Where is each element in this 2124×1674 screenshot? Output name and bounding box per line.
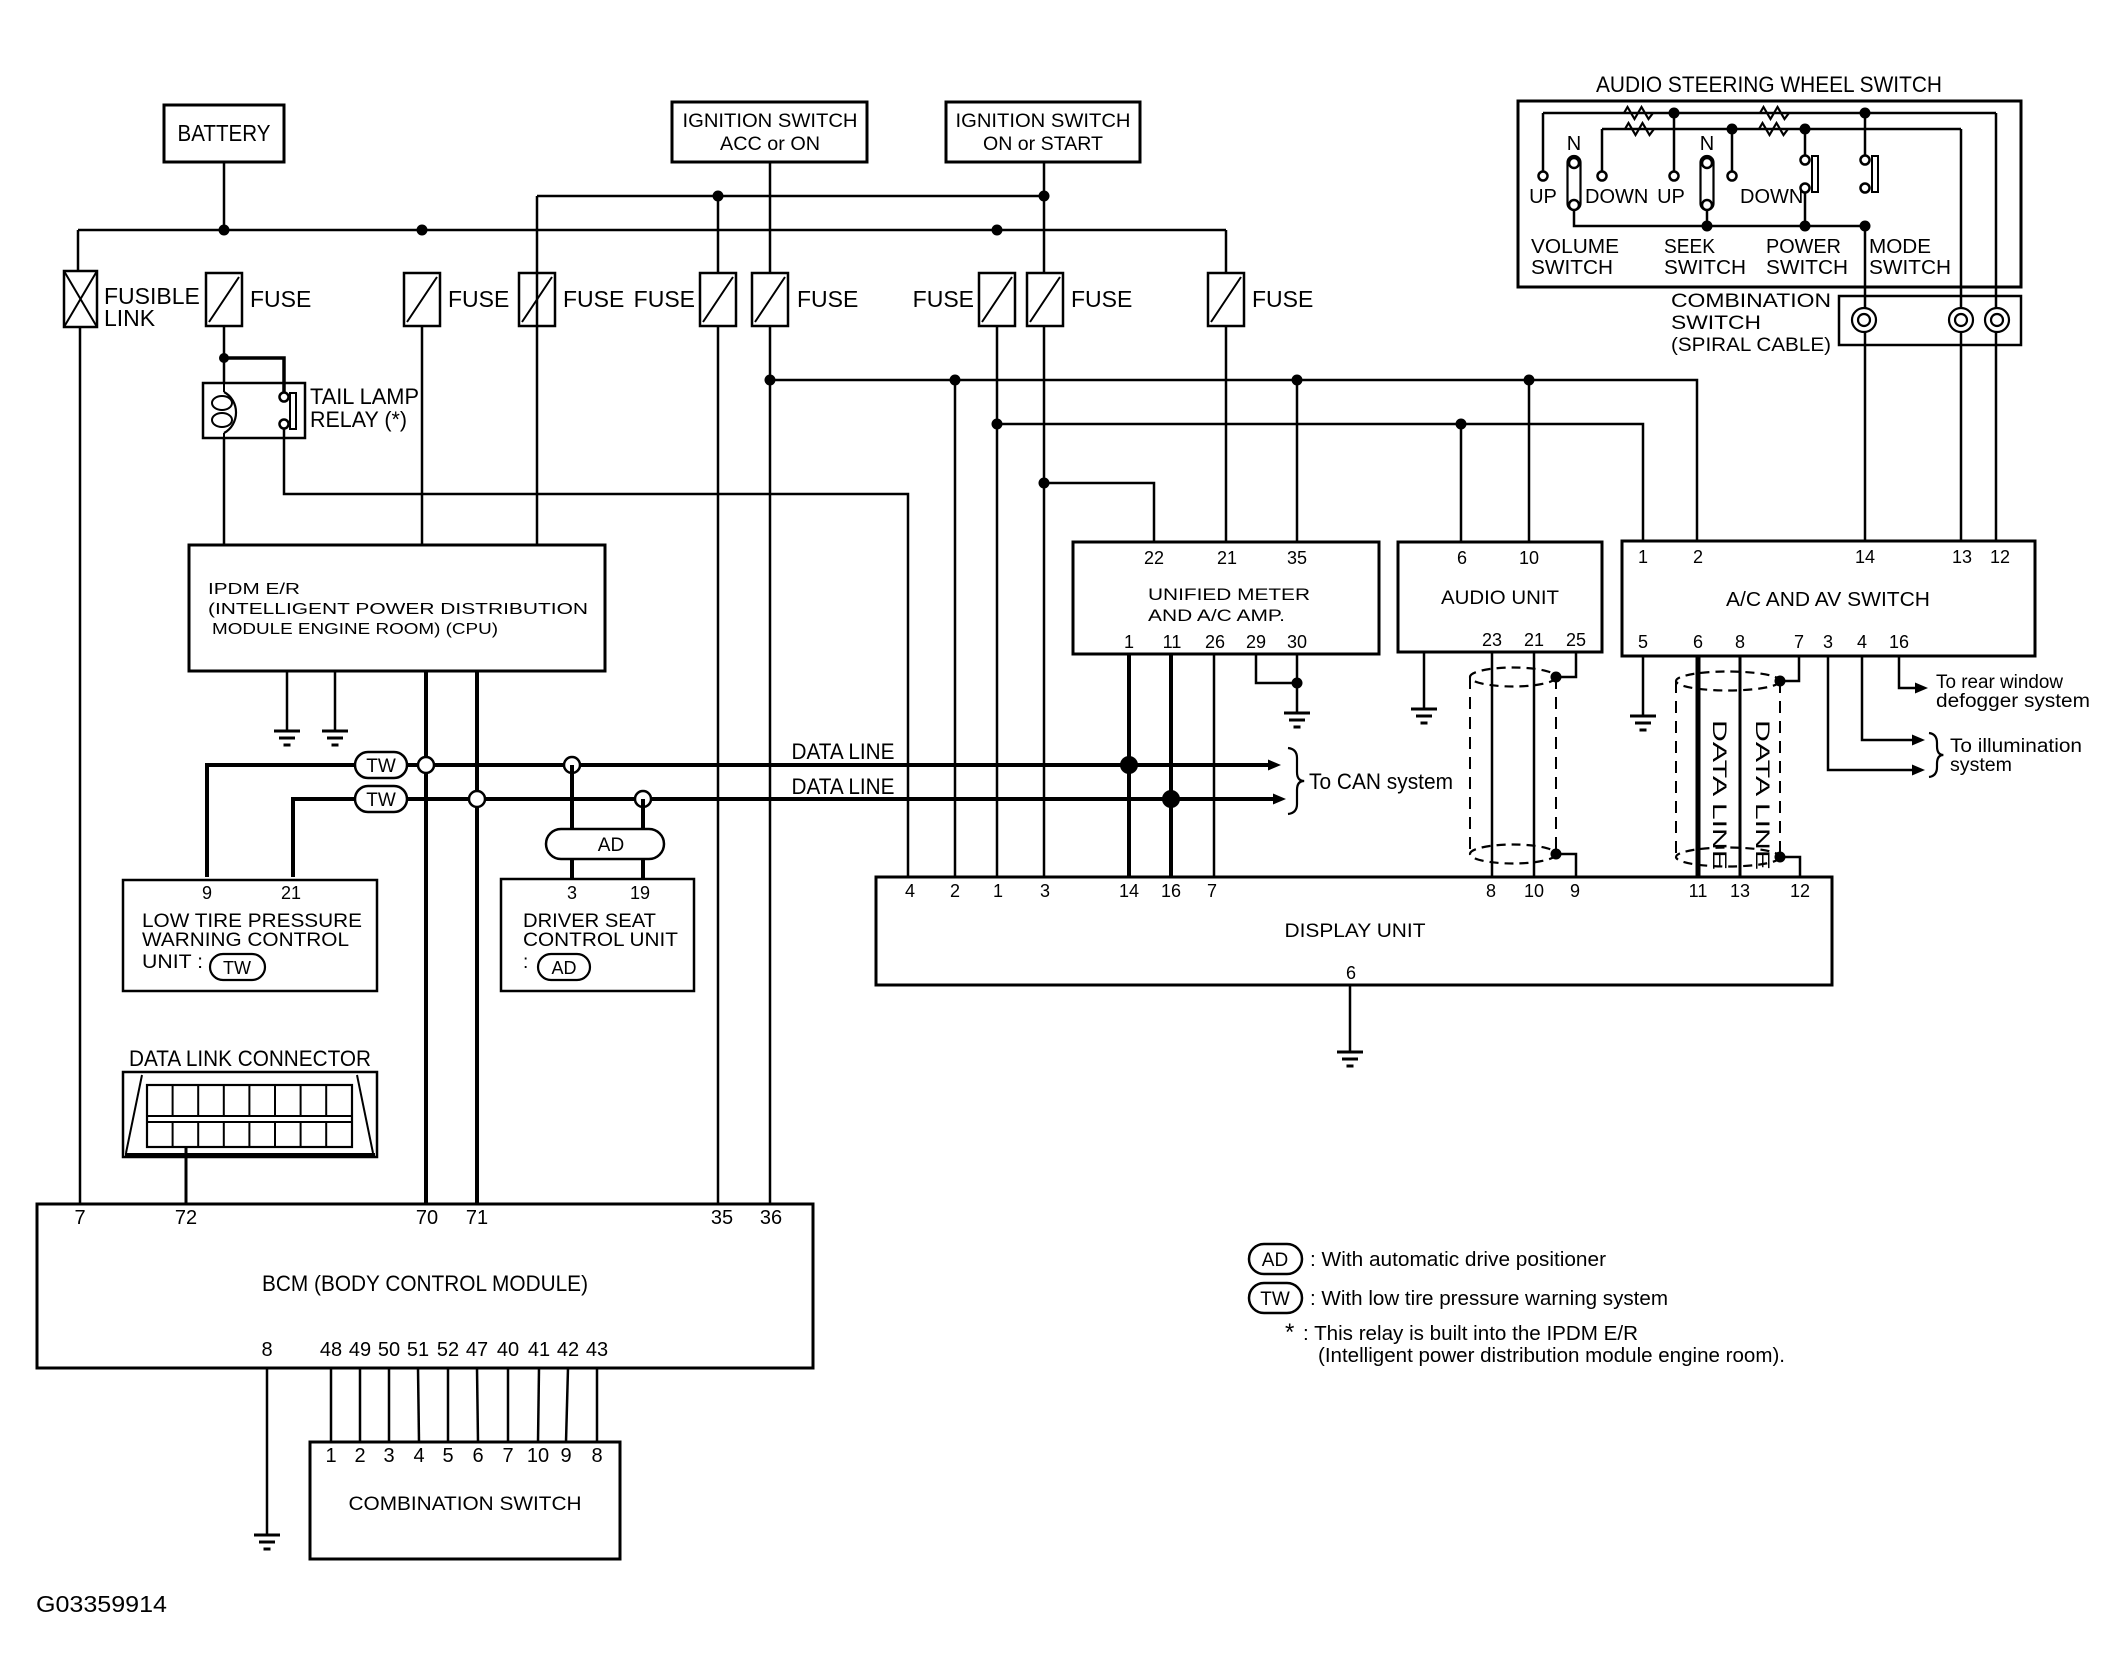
svg-text:2: 2 — [354, 1445, 365, 1467]
svg-text:COMBINATION SWITCH: COMBINATION SWITCH — [349, 1494, 582, 1515]
svg-text::: : — [523, 952, 528, 973]
ground BCM — [254, 1534, 280, 1537]
arrow illumination 1 — [1912, 735, 1925, 746]
svg-text:LOW TIRE PRESSURE: LOW TIRE PRESSURE — [142, 911, 362, 932]
wire line B output to A/C pin 13 — [1960, 129, 1963, 541]
wire IPDM ground 1 — [286, 671, 289, 731]
svg-text:FUSE: FUSE — [250, 286, 311, 312]
svg-text:UP: UP — [1657, 186, 1685, 208]
fuse F8 — [1208, 273, 1244, 326]
svg-text:13: 13 — [1730, 881, 1750, 901]
wire driver seat pin 19 drop — [641, 799, 645, 879]
arrow CAN-L to CAN system — [1273, 794, 1286, 805]
wire switch bottom bus line C — [1574, 210, 1865, 226]
svg-text:16: 16 — [1161, 881, 1181, 901]
svg-text:3: 3 — [567, 883, 577, 903]
shield cylinder audio — [1470, 668, 1556, 687]
fuse F2 — [404, 273, 440, 326]
svg-text:48: 48 — [320, 1339, 342, 1361]
svg-text:SWITCH: SWITCH — [1531, 257, 1613, 279]
wire battery feed line y424 — [997, 424, 1643, 541]
svg-text:SEEK: SEEK — [1664, 236, 1716, 258]
svg-text:21: 21 — [1524, 630, 1544, 650]
svg-text:ACC or ON: ACC or ON — [720, 133, 820, 155]
wire A/C pin 16 to rear defogger — [1899, 656, 1915, 688]
wire A/C pin 6 data line to display 11 — [1696, 656, 1701, 877]
svg-text:DATA LINE: DATA LINE — [792, 774, 895, 799]
svg-text:36: 36 — [760, 1207, 782, 1229]
svg-text:71: 71 — [466, 1207, 488, 1229]
arrow CAN-H to CAN system — [1268, 760, 1281, 771]
wire A/C pin 4 to illumination — [1862, 656, 1912, 740]
wires BCM to combination switch — [330, 1368, 333, 1442]
svg-text:VOLUME: VOLUME — [1531, 236, 1619, 258]
node CAN junction seat-3 — [564, 757, 580, 773]
wire driver seat pin 3 drop — [570, 765, 574, 879]
svg-text:11: 11 — [1163, 632, 1182, 652]
wire fuse F3 to IPDM — [536, 273, 539, 545]
svg-text:IGNITION SWITCH: IGNITION SWITCH — [683, 110, 858, 132]
wire audio pin 23 to display 8 — [1491, 652, 1494, 877]
ground audio unit — [1411, 708, 1437, 711]
svg-text:43: 43 — [586, 1339, 608, 1361]
svg-text:51: 51 — [407, 1339, 429, 1361]
resistor R1 on line A — [1624, 107, 1653, 119]
wire DLC pin to BCM pin 72 — [185, 1147, 188, 1204]
wire volume down contact — [1601, 129, 1604, 171]
wire BCM pin 8 ground — [266, 1368, 269, 1535]
wire line A output to A/C pin 12 — [1995, 113, 1998, 541]
svg-text:DOWN: DOWN — [1740, 186, 1803, 208]
wire unified meter pin 35 drop — [1296, 380, 1299, 542]
node fuse F6 branch y424 — [992, 419, 1003, 430]
svg-text:CONTROL UNIT: CONTROL UNIT — [523, 930, 678, 951]
svg-text:TW: TW — [366, 790, 396, 811]
svg-text:72: 72 — [175, 1207, 197, 1229]
spiral cable contact 2 — [1949, 308, 1973, 332]
svg-text:9: 9 — [1570, 881, 1580, 901]
wire seek up contact — [1673, 113, 1676, 171]
IPDM E/R box — [189, 545, 605, 671]
wire ignition START down to fuse F7 — [1043, 162, 1046, 273]
svg-text:TW: TW — [1260, 1289, 1290, 1310]
node audio shield bottom — [1551, 849, 1562, 860]
wire data line 1 (CAN-H) — [207, 765, 1268, 877]
legend AD symbol — [1249, 1244, 1302, 1274]
svg-text:UNIT :: UNIT : — [142, 952, 203, 973]
svg-text:1: 1 — [1124, 632, 1134, 652]
combination switch box — [310, 1442, 620, 1559]
svg-text:12: 12 — [1790, 881, 1810, 901]
svg-text:(SPIRAL CABLE): (SPIRAL CABLE) — [1671, 335, 1831, 356]
ground A/C AV switch — [1630, 715, 1656, 718]
wire bus corner to fuse F8 — [1225, 230, 1228, 273]
wire battery bus — [78, 229, 1226, 232]
node CAN junction meter-1 / display-14 — [1120, 756, 1138, 774]
combination switch spiral cable box — [1839, 296, 2021, 345]
svg-text:70: 70 — [416, 1207, 438, 1229]
svg-text:4: 4 — [413, 1445, 424, 1467]
svg-text:16: 16 — [1889, 632, 1909, 652]
svg-text:AD: AD — [551, 958, 576, 978]
svg-text:11: 11 — [1689, 881, 1708, 901]
svg-text:DOWN: DOWN — [1585, 186, 1648, 208]
wire power top contact — [1804, 129, 1807, 155]
node line B seek tap — [1727, 124, 1738, 135]
node meter ground junction — [1292, 678, 1303, 689]
wire data line 2 (CAN-L) — [293, 799, 1273, 877]
svg-text:FUSE: FUSE — [797, 286, 858, 312]
wire A/C pin 7 shield tap — [1785, 656, 1799, 681]
node bus seek — [1702, 221, 1713, 232]
contact power bottom — [1801, 184, 1810, 193]
svg-text:22: 22 — [1144, 548, 1164, 568]
svg-text:AND A/C AMP.: AND A/C AMP. — [1148, 606, 1285, 625]
svg-text:AUDIO UNIT: AUDIO UNIT — [1441, 588, 1559, 609]
wire ign-start branch line y196 — [537, 195, 1045, 198]
svg-text:LINK: LINK — [104, 305, 156, 331]
svg-text:29: 29 — [1246, 632, 1266, 652]
svg-text:To rear window: To rear window — [1936, 672, 2063, 693]
svg-text:52: 52 — [437, 1339, 459, 1361]
svg-text:4: 4 — [1857, 632, 1867, 652]
wire A/C pin 3 to illumination — [1828, 656, 1912, 770]
tail lamp relay K1 box — [203, 383, 305, 438]
svg-text:: This relay is built into the: : This relay is built into the IPDM E/R — [1303, 1323, 1638, 1345]
svg-text:BATTERY: BATTERY — [178, 120, 271, 146]
node audio shield top — [1551, 672, 1562, 683]
wire IPDM CAN-H to BCM pin 70 — [424, 671, 428, 1204]
svg-text:10: 10 — [527, 1445, 549, 1467]
svg-text:13: 13 — [1952, 547, 1972, 567]
svg-text:BCM (BODY CONTROL MODULE): BCM (BODY CONTROL MODULE) — [262, 1271, 588, 1296]
ground IPDM 2 — [322, 730, 348, 733]
display unit box — [876, 877, 1832, 985]
audio steering wheel switch box — [1518, 101, 2021, 287]
svg-text:19: 19 — [630, 883, 650, 903]
svg-text:FUSE: FUSE — [448, 286, 509, 312]
svg-text:N: N — [1700, 133, 1714, 155]
svg-text:To illumination: To illumination — [1950, 736, 2082, 757]
wire audio unit pin 10 drop — [1528, 380, 1531, 542]
svg-text:41: 41 — [528, 1339, 550, 1361]
svg-text:*: * — [1285, 1319, 1294, 1346]
node unified meter pin35 tap — [1292, 375, 1303, 386]
svg-text:7: 7 — [502, 1445, 513, 1467]
svg-text:7: 7 — [1794, 632, 1804, 652]
svg-text:TW: TW — [366, 756, 396, 777]
svg-text:3: 3 — [1040, 881, 1050, 901]
ground display unit — [1337, 1051, 1363, 1054]
svg-text:5: 5 — [1638, 632, 1648, 652]
node fuse F4 tap — [713, 191, 724, 202]
svg-text:35: 35 — [711, 1207, 733, 1229]
svg-text:7: 7 — [1207, 881, 1217, 901]
wire relay coil to IPDM — [223, 438, 226, 545]
wire audio shield to display 9 — [1556, 854, 1576, 877]
svg-text:system: system — [1950, 755, 2012, 776]
svg-text:IPDM E/R: IPDM E/R — [208, 581, 300, 598]
fuse F3 — [519, 273, 555, 326]
wire mode top contact — [1864, 113, 1867, 155]
wire audio pin 25 shield tap — [1561, 652, 1576, 677]
node CAN junction meter-11 / display-16 — [1162, 790, 1180, 808]
spiral cable contact 1 — [1852, 308, 1876, 332]
legend TW symbol — [1249, 1283, 1302, 1313]
svg-text:8: 8 — [1486, 881, 1496, 901]
ignition switch ON/START box — [946, 102, 1140, 162]
connector TW on data line 1 — [355, 752, 407, 778]
svg-text:50: 50 — [378, 1339, 400, 1361]
svg-text:10: 10 — [1519, 548, 1539, 568]
svg-text:: With automatic drive positio: : With automatic drive positioner — [1310, 1249, 1606, 1271]
ground unified meter — [1284, 712, 1310, 715]
seek N switch — [1701, 156, 1714, 210]
node battery-bus junction — [219, 225, 230, 236]
svg-text:RELAY (*): RELAY (*) — [310, 407, 407, 432]
svg-text:UNIFIED METER: UNIFIED METER — [1148, 585, 1310, 604]
node fuse F7 branch y483 — [1039, 478, 1050, 489]
node bus fuse F6 junction — [992, 225, 1003, 236]
wire switch line A — [1543, 112, 1996, 115]
wire IPDM ground 2 — [334, 671, 337, 731]
wire relay contact to display pin 4 — [284, 428, 908, 877]
svg-text:49: 49 — [349, 1339, 371, 1361]
wire fuse F3 riser — [536, 196, 539, 273]
battery B1 — [164, 105, 284, 162]
wire fuse F5 to BCM pin 36 — [769, 327, 772, 1204]
wire volume up contact — [1542, 113, 1545, 171]
svg-text:IGNITION SWITCH: IGNITION SWITCH — [956, 110, 1131, 132]
fuse F1 — [206, 273, 242, 326]
svg-text:30: 30 — [1287, 632, 1307, 652]
svg-text:DRIVER SEAT: DRIVER SEAT — [523, 911, 656, 932]
node ACC feed junction y380 — [765, 375, 776, 386]
svg-text:35: 35 — [1287, 548, 1307, 568]
svg-text:47: 47 — [466, 1339, 488, 1361]
wire ignition ACC down to fuse F5 — [769, 162, 772, 273]
svg-text:3: 3 — [1823, 632, 1833, 652]
svg-text:FUSE: FUSE — [1071, 286, 1132, 312]
ground IPDM 1 — [274, 730, 300, 733]
arrow illumination 2 — [1912, 765, 1925, 776]
svg-text:SWITCH: SWITCH — [1766, 257, 1848, 279]
node relay feed junction — [219, 353, 229, 363]
node line A seek tap — [1669, 108, 1680, 119]
svg-text:3: 3 — [383, 1445, 394, 1467]
contact power top — [1801, 156, 1810, 165]
wire mode output to A/C pin 14 — [1864, 226, 1867, 541]
fuse F4 — [700, 273, 736, 326]
power switch blade — [1812, 156, 1818, 192]
svg-text:FUSE: FUSE — [563, 286, 624, 312]
resistor R4 on line B — [1759, 123, 1788, 135]
svg-text:1: 1 — [993, 881, 1003, 901]
arrow rear defogger — [1915, 683, 1928, 694]
contact volume up — [1539, 172, 1548, 181]
svg-text:COMBINATION: COMBINATION — [1671, 291, 1831, 312]
wire battery to bus — [223, 162, 226, 230]
svg-text:DATA LINK CONNECTOR: DATA LINK CONNECTOR — [129, 1046, 371, 1071]
node line B power tap — [1800, 124, 1811, 135]
contact volume down — [1598, 172, 1607, 181]
svg-text:AD: AD — [1262, 1250, 1288, 1271]
svg-text:40: 40 — [497, 1339, 519, 1361]
svg-text:4: 4 — [905, 881, 915, 901]
svg-text:FUSE: FUSE — [634, 286, 695, 312]
wire bus left drop to fusible link — [77, 230, 80, 271]
node audio pin6 tap — [1456, 419, 1467, 430]
fuse F7 — [1027, 273, 1063, 326]
svg-text:9: 9 — [560, 1445, 571, 1467]
wire fuse F4 riser — [717, 196, 720, 273]
audio unit box — [1398, 542, 1602, 652]
brace illumination — [1929, 733, 1943, 777]
fuse F6 — [979, 273, 1015, 326]
svg-text:6: 6 — [1693, 632, 1703, 652]
relay K1 coil — [223, 383, 225, 392]
node audio pin10 tap — [1524, 375, 1535, 386]
wire meter pin 29 to ground link — [1256, 654, 1297, 683]
svg-text:23: 23 — [1482, 630, 1502, 650]
wire A/C pin 8 data line to display 13 — [1739, 656, 1742, 877]
svg-text:12: 12 — [1990, 547, 2010, 567]
svg-text:POWER: POWER — [1766, 236, 1841, 258]
svg-text:TW: TW — [223, 958, 251, 978]
svg-text:8: 8 — [261, 1339, 272, 1361]
svg-text:21: 21 — [1217, 548, 1237, 568]
svg-text:TAIL LAMP: TAIL LAMP — [310, 384, 419, 409]
node CAN junction IPDM-L — [469, 791, 485, 807]
resistor R2 on line A — [1760, 107, 1789, 119]
svg-text:defogger system: defogger system — [1936, 691, 2090, 712]
svg-text:1: 1 — [325, 1445, 336, 1467]
svg-text:FUSE: FUSE — [913, 286, 974, 312]
svg-text:SWITCH: SWITCH — [1664, 257, 1746, 279]
fusible link FL — [64, 271, 97, 327]
svg-text:7: 7 — [74, 1207, 85, 1229]
spiral cable contact 3 — [1985, 308, 2009, 332]
svg-text:2: 2 — [950, 881, 960, 901]
wire fuse F8 to unified meter pin 21 — [1225, 327, 1228, 542]
node line A mode tap — [1860, 108, 1871, 119]
svg-text:A/C AND AV SWITCH: A/C AND AV SWITCH — [1726, 589, 1930, 611]
wire seek down contact — [1731, 129, 1734, 171]
wire IPDM CAN-L to BCM pin 71 — [475, 671, 479, 1204]
contact seek up — [1670, 172, 1679, 181]
connector TW on data line 2 — [355, 786, 407, 812]
svg-text:42: 42 — [557, 1339, 579, 1361]
node display pin2 tap — [950, 375, 961, 386]
node A/C shield bottom — [1775, 852, 1786, 863]
svg-text:ON or START: ON or START — [983, 133, 1103, 155]
svg-text:6: 6 — [1457, 548, 1467, 568]
svg-text:14: 14 — [1855, 547, 1875, 567]
svg-text:N: N — [1567, 133, 1581, 155]
svg-text:14: 14 — [1119, 881, 1139, 901]
wire meter pin 26 to display 7 — [1213, 654, 1216, 877]
svg-text:9: 9 — [202, 883, 212, 903]
contact mode bottom — [1861, 184, 1870, 193]
node bus power — [1800, 221, 1811, 232]
ignition switch ACC box — [672, 102, 867, 162]
node CAN junction seat-19 — [635, 791, 651, 807]
BCM body control module box — [37, 1204, 813, 1368]
A/C and AV switch box — [1622, 541, 2035, 656]
driver seat control unit box — [501, 879, 694, 991]
svg-text:5: 5 — [442, 1445, 453, 1467]
node A/C shield top — [1775, 676, 1786, 687]
svg-text:: With low tire pressure warni: : With low tire pressure warning system — [1310, 1288, 1668, 1310]
wire meter pin 30 to ground — [1296, 654, 1299, 713]
svg-text:AD: AD — [598, 835, 624, 856]
node bus mode — [1860, 221, 1871, 232]
fuse F5 — [752, 273, 788, 326]
wire ign-start feed line y483 to unified meter pin 22 — [1044, 483, 1154, 542]
wire fusible link to BCM pin 7 — [79, 327, 82, 1204]
wire fuse F4 to BCM pin 35 — [717, 327, 720, 1204]
svg-text:SWITCH: SWITCH — [1869, 257, 1951, 279]
node CAN junction IPDM-H — [418, 757, 434, 773]
svg-text:DATA LINE: DATA LINE — [1751, 720, 1772, 870]
wire display pin 6 ground — [1349, 985, 1352, 1052]
svg-text:2: 2 — [1693, 547, 1703, 567]
svg-text:6: 6 — [1346, 963, 1356, 983]
unified meter and A/C amp box — [1073, 542, 1379, 654]
svg-text:DATA LINE: DATA LINE — [1708, 720, 1729, 870]
svg-text:21: 21 — [281, 883, 301, 903]
wire audio pin 21 to display 10 — [1533, 652, 1536, 877]
data link connector J1 — [123, 1072, 377, 1157]
wire fuse F7 down to display pin 3 — [1043, 327, 1046, 877]
svg-text:MODE: MODE — [1869, 236, 1931, 258]
svg-text:MODULE ENGINE ROOM) (CPU): MODULE ENGINE ROOM) (CPU) — [212, 621, 498, 638]
svg-text:SWITCH: SWITCH — [1671, 313, 1761, 334]
wire A/C shield to display 12 — [1780, 857, 1800, 877]
svg-text:AUDIO STEERING WHEEL SWITCH: AUDIO STEERING WHEEL SWITCH — [1596, 72, 1942, 97]
low tire pressure warning control unit box — [123, 880, 377, 991]
svg-text:8: 8 — [591, 1445, 602, 1467]
wire fuse F1 to tail lamp relay — [223, 326, 226, 383]
resistor R3 on line B — [1625, 123, 1654, 135]
wire meter pin 1 to CAN / display 14 — [1127, 654, 1131, 877]
wire audio ground — [1423, 652, 1426, 709]
svg-text:DISPLAY UNIT: DISPLAY UNIT — [1285, 921, 1426, 942]
wire switch line B — [1602, 128, 1961, 131]
svg-text:FUSE: FUSE — [1252, 286, 1313, 312]
contact seek down — [1728, 172, 1737, 181]
connector AD oval on seat wires — [546, 829, 664, 859]
svg-text:DATA LINE: DATA LINE — [792, 739, 895, 764]
wire power bottom to bus — [1804, 192, 1807, 226]
svg-text:26: 26 — [1205, 632, 1225, 652]
mode switch blade — [1872, 156, 1878, 192]
svg-text:6: 6 — [472, 1445, 483, 1467]
svg-text:25: 25 — [1566, 630, 1586, 650]
svg-text:(Intelligent power distributio: (Intelligent power distribution module e… — [1318, 1345, 1785, 1367]
wire meter pin 11 to CAN / display 16 — [1169, 654, 1173, 877]
node bus fuse F2 junction — [417, 225, 428, 236]
node ign-start tap — [1039, 191, 1050, 202]
wire relay contact feed — [224, 358, 284, 397]
wire ACC feed line y380 — [770, 380, 1697, 541]
wire fuse F2 to IPDM — [421, 326, 424, 545]
relay K1 contact — [280, 393, 289, 402]
wire A/C pin 5 ground — [1642, 656, 1645, 716]
svg-text:1: 1 — [1638, 547, 1648, 567]
contact mode top — [1861, 156, 1870, 165]
svg-text:UP: UP — [1529, 186, 1557, 208]
